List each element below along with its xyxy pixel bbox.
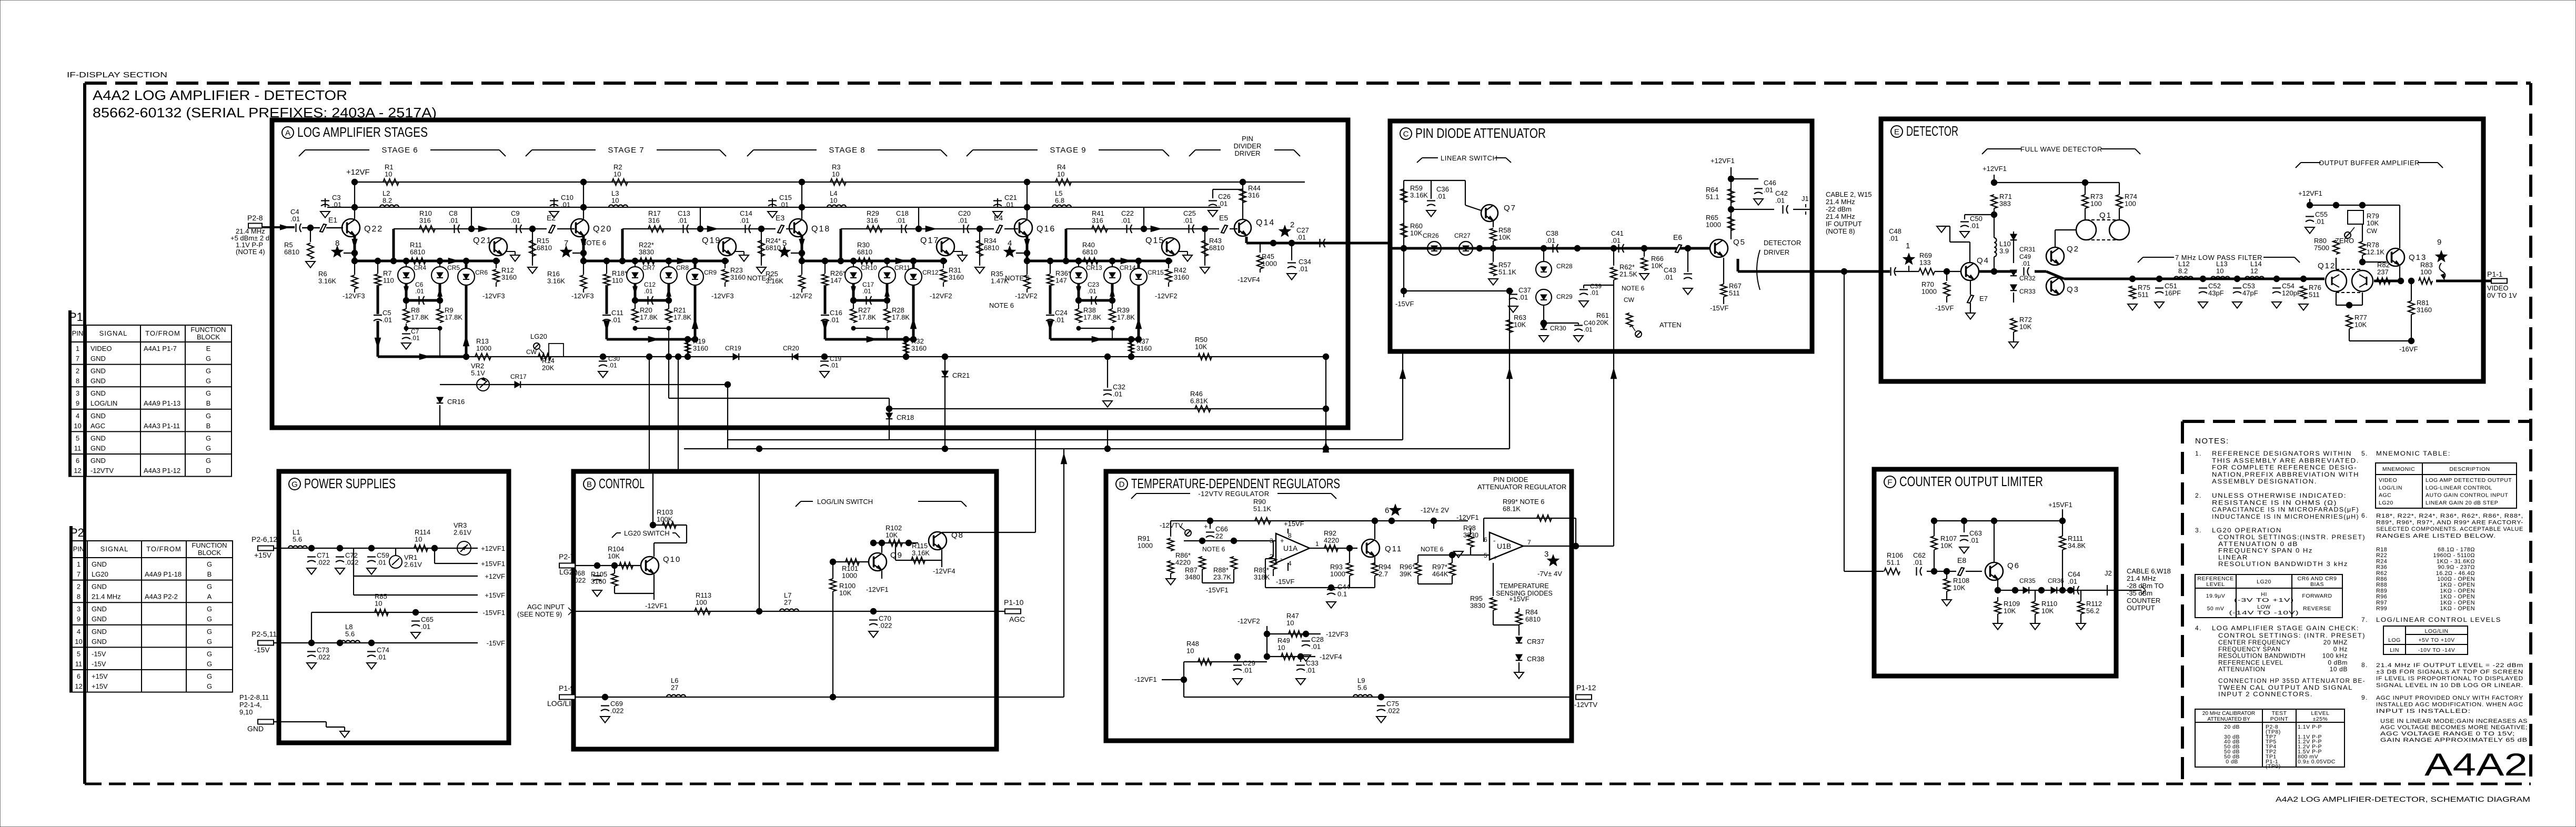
svg-text:J2: J2 [2105, 569, 2112, 577]
svg-text:3160: 3160 [693, 345, 708, 352]
svg-text:.01: .01 [1306, 667, 1315, 674]
svg-text:LG20: LG20 [2257, 579, 2271, 585]
svg-text:FUNCTION: FUNCTION [190, 326, 226, 334]
svg-text:CR16: CR16 [447, 398, 465, 406]
svg-text:.01: .01 [449, 217, 458, 225]
svg-text:CR20: CR20 [783, 345, 799, 352]
svg-text:J1: J1 [1802, 195, 1809, 203]
svg-text:P2-8: P2-8 [247, 214, 263, 222]
svg-text:GND: GND [90, 377, 106, 385]
svg-text:4: 4 [76, 412, 79, 420]
svg-text:A: A [207, 593, 212, 601]
svg-text:IF LEVEL IS PROPORTIONAL TO DI: IF LEVEL IS PROPORTIONAL TO DISPLAYED [2376, 675, 2523, 682]
svg-text:3: 3 [77, 605, 80, 613]
svg-text:10K: 10K [1195, 343, 1207, 351]
svg-text:AGC: AGC [2379, 492, 2391, 499]
svg-text:8: 8 [76, 377, 79, 385]
svg-text:NOTE 6: NOTE 6 [989, 301, 1014, 309]
svg-text:G: G [291, 480, 298, 489]
svg-text:(TP9): (TP9) [2266, 763, 2281, 770]
svg-text:.01: .01 [1296, 234, 1306, 241]
svg-text:Q6: Q6 [2007, 561, 2020, 570]
svg-text:8: 8 [77, 593, 80, 601]
svg-text:17.8K: 17.8K [892, 314, 910, 321]
svg-text:CR36: CR36 [2048, 577, 2064, 584]
svg-text:383: 383 [1999, 200, 2011, 208]
svg-text:R18: R18 [2376, 547, 2387, 553]
svg-text:6810: 6810 [1209, 244, 1224, 252]
svg-text:47pF: 47pF [2242, 289, 2258, 297]
svg-text:-15VF: -15VF [487, 639, 505, 647]
svg-text:LOG/LIN SWITCH: LOG/LIN SWITCH [817, 498, 873, 506]
svg-text:-22 dBm: -22 dBm [1826, 205, 1851, 213]
svg-text:+5V TO +10V: +5V TO +10V [2418, 637, 2454, 643]
svg-text:P1-10: P1-10 [1004, 598, 1024, 607]
svg-text:6810: 6810 [1082, 248, 1098, 256]
svg-text:.01: .01 [1183, 217, 1193, 225]
svg-text:MNEMONIC: MNEMONIC [2382, 466, 2415, 472]
svg-text:10: 10 [830, 197, 837, 205]
svg-text:R96: R96 [2376, 594, 2387, 600]
svg-text:1KΩ - OPEN: 1KΩ - OPEN [2440, 582, 2475, 588]
svg-text:CR9: CR9 [704, 269, 717, 276]
svg-text:NOTE 6: NOTE 6 [1005, 274, 1030, 282]
svg-text:.01: .01 [958, 217, 968, 225]
svg-text:4: 4 [77, 628, 80, 636]
svg-text:P1-12: P1-12 [1576, 683, 1596, 692]
svg-text:LG20: LG20 [92, 570, 108, 578]
svg-text:.01: .01 [1311, 643, 1321, 651]
svg-text:AGC: AGC [1009, 615, 1025, 623]
svg-text:.01: .01 [561, 201, 570, 209]
svg-text:.01: .01 [779, 201, 789, 209]
svg-text:5.6: 5.6 [345, 630, 355, 638]
svg-text:5.6: 5.6 [293, 536, 302, 543]
svg-text:-15VF: -15VF [1935, 304, 1954, 312]
svg-text:-: - [1493, 537, 1495, 544]
svg-text:10: 10 [613, 170, 621, 178]
svg-text:TEMPERATURE-DEPENDENT REGULATO: TEMPERATURE-DEPENDENT REGULATORS [1131, 476, 1340, 491]
svg-text:110: 110 [383, 277, 394, 285]
svg-text:G: G [207, 660, 212, 668]
svg-text:10K: 10K [1410, 229, 1422, 237]
svg-text:20 MHz CALIBRATOR: 20 MHz CALIBRATOR [2202, 711, 2255, 717]
svg-text:G: G [206, 355, 211, 362]
svg-text:PIN: PIN [1242, 135, 1253, 143]
svg-text:.01: .01 [2021, 260, 2030, 267]
svg-text:Q7: Q7 [1504, 204, 1516, 213]
svg-text:-15VF1: -15VF1 [482, 609, 505, 617]
svg-text:LOG-LINEAR CONTROL: LOG-LINEAR CONTROL [2426, 485, 2492, 491]
svg-text:5: 5 [77, 650, 80, 658]
svg-text:GND: GND [90, 434, 106, 442]
svg-text:3160: 3160 [1174, 274, 1189, 281]
svg-text:OUTPUT BUFFER AMPLIFIER: OUTPUT BUFFER AMPLIFIER [2319, 159, 2420, 167]
svg-text:.01: .01 [1584, 326, 1593, 334]
svg-text:PIN: PIN [72, 329, 84, 337]
svg-text:316: 316 [419, 217, 431, 225]
svg-text:120pF: 120pF [2282, 289, 2301, 297]
svg-text:A4A2: A4A2 [2424, 747, 2528, 782]
svg-text:R97: R97 [2376, 600, 2387, 606]
svg-text:F: F [1887, 478, 1892, 487]
svg-text:.022: .022 [317, 559, 330, 567]
svg-text:(SEE NOTE 9): (SEE NOTE 9) [517, 610, 562, 618]
svg-text:3: 3 [1544, 550, 1548, 559]
svg-text:INPUT IS INSTALLED:: INPUT IS INSTALLED: [2376, 708, 2471, 714]
svg-text:GND: GND [247, 724, 264, 733]
svg-text:3830: 3830 [1470, 602, 1485, 610]
svg-text:AUTO GAIN CONTROL INPUT: AUTO GAIN CONTROL INPUT [2426, 492, 2508, 499]
svg-text:3.16K: 3.16K [1410, 191, 1428, 199]
svg-text:NOTE 6: NOTE 6 [747, 274, 772, 282]
svg-text:-12VF2: -12VF2 [1015, 292, 1038, 300]
svg-text:.01: .01 [1913, 559, 1923, 567]
svg-text:6: 6 [76, 457, 79, 465]
svg-text:CONTROL SETTINGS: (INTR. PRESE: CONTROL SETTINGS: (INTR. PRESET) [2218, 632, 2366, 639]
svg-text:.01: .01 [830, 362, 839, 369]
svg-text:B: B [587, 480, 592, 489]
svg-text:316: 316 [867, 217, 878, 225]
svg-text:6.8: 6.8 [1055, 197, 1064, 205]
svg-text:10K: 10K [2019, 323, 2031, 331]
svg-text:12: 12 [74, 467, 81, 475]
svg-text:1000: 1000 [1706, 221, 1721, 229]
svg-text:-35 dBm: -35 dBm [2127, 589, 2152, 597]
svg-text:NOTES:: NOTES: [2195, 437, 2229, 446]
svg-text:CR32: CR32 [2019, 275, 2036, 282]
svg-text:-12VF3: -12VF3 [343, 292, 365, 300]
svg-text:COUNTER: COUNTER [2127, 597, 2160, 604]
svg-text:10K: 10K [2354, 321, 2367, 329]
svg-text:316: 316 [648, 217, 660, 225]
svg-text:.01: .01 [290, 215, 300, 223]
svg-text:U1B: U1B [1497, 542, 1511, 550]
svg-text:17.8K: 17.8K [673, 314, 691, 321]
svg-text:U1A: U1A [1283, 544, 1298, 552]
svg-text:LINEAR SWITCH: LINEAR SWITCH [1441, 154, 1497, 162]
svg-text:LG20: LG20 [530, 332, 547, 340]
svg-text:STAGE 9: STAGE 9 [1050, 146, 1086, 155]
svg-text:-15VF1: -15VF1 [1206, 586, 1229, 594]
svg-text:.01: .01 [862, 288, 871, 295]
svg-text:CR37: CR37 [1527, 638, 1544, 646]
svg-text:COUNTER OUTPUT LIMITER: COUNTER OUTPUT LIMITER [1899, 473, 2043, 489]
svg-text:1000: 1000 [1138, 542, 1153, 550]
svg-text:7: 7 [564, 239, 568, 248]
svg-text:SIGNAL LEVEL IN 10 DB LOG OR L: SIGNAL LEVEL IN 10 DB LOG OR LINEAR. [2376, 682, 2523, 689]
svg-text:90.9Ω - 237Ω: 90.9Ω - 237Ω [2438, 564, 2475, 571]
svg-text:R22: R22 [2376, 552, 2387, 559]
svg-text:1000: 1000 [1921, 288, 1937, 296]
svg-text:LINEAR GAIN 20 dB STEP: LINEAR GAIN 20 dB STEP [2426, 500, 2498, 506]
svg-text:7.: 7. [2361, 616, 2368, 623]
svg-text:POWER SUPPLIES: POWER SUPPLIES [304, 476, 396, 491]
svg-text:11: 11 [75, 660, 83, 668]
svg-text:.01: .01 [1299, 265, 1308, 273]
svg-text:+12VF: +12VF [485, 572, 505, 580]
svg-text:AGC VOLTAGE BECOMES MORE NEGAT: AGC VOLTAGE BECOMES MORE NEGATIVE; [2380, 724, 2528, 731]
svg-text:B: B [206, 399, 211, 407]
svg-text:Q22: Q22 [364, 225, 383, 234]
svg-text:20 dB: 20 dB [2224, 724, 2240, 730]
svg-text:6.81K: 6.81K [1190, 397, 1208, 405]
svg-text:+12VF: +12VF [346, 168, 370, 177]
svg-text:GND: GND [90, 389, 106, 397]
svg-text:100K: 100K [657, 516, 673, 523]
svg-text:A: A [285, 129, 290, 138]
svg-text:FUNCTION: FUNCTION [192, 541, 227, 549]
svg-text:.01: .01 [377, 653, 386, 661]
svg-text:STAGE 8: STAGE 8 [829, 146, 865, 155]
svg-text:CR33: CR33 [2019, 288, 2036, 295]
svg-text:NATION,PREFIX ABBREVIATION WIT: NATION,PREFIX ABBREVIATION WITH [2212, 471, 2359, 478]
svg-text:R88: R88 [2376, 582, 2387, 588]
svg-text:6810: 6810 [410, 248, 425, 256]
svg-text:P2-5,11: P2-5,11 [251, 630, 277, 638]
svg-text:.022: .022 [1386, 707, 1400, 715]
svg-text:20K: 20K [542, 364, 554, 372]
svg-text:51.1: 51.1 [1706, 193, 1719, 201]
svg-text:-15VF: -15VF [1395, 300, 1414, 308]
svg-text:GND: GND [90, 444, 106, 452]
svg-text:+15VF1: +15VF1 [2048, 501, 2072, 509]
svg-text:17.8K: 17.8K [640, 314, 658, 321]
svg-text:3160: 3160 [1136, 345, 1152, 352]
svg-text:50 mV: 50 mV [2207, 606, 2225, 612]
svg-text:.01: .01 [415, 288, 424, 295]
svg-text:-12VF3: -12VF3 [1326, 630, 1349, 638]
svg-text:E7: E7 [1979, 295, 1988, 302]
svg-text:.01: .01 [332, 201, 341, 209]
svg-text:.01: .01 [2315, 218, 2325, 226]
svg-text:NOTE 6: NOTE 6 [1622, 285, 1645, 292]
svg-text:PIN: PIN [73, 545, 85, 553]
svg-text:-15V: -15V [92, 660, 106, 668]
svg-text:+15V: +15V [92, 682, 108, 690]
svg-text:SIGNAL: SIGNAL [100, 545, 129, 553]
svg-text:CR15: CR15 [1148, 269, 1164, 276]
svg-text:1000: 1000 [1262, 260, 1277, 268]
svg-text:3830: 3830 [639, 248, 654, 256]
svg-text:68.1K: 68.1K [1503, 505, 1521, 513]
svg-text:GND: GND [92, 583, 107, 591]
svg-text:.01: .01 [1970, 222, 1979, 230]
svg-text:P1-2-8,11: P1-2-8,11 [239, 693, 269, 701]
svg-text:1KΩ - 31.6KΩ: 1KΩ - 31.6KΩ [2437, 558, 2475, 564]
svg-text:G: G [207, 650, 212, 658]
svg-text:237: 237 [2377, 268, 2389, 276]
svg-text:G: G [207, 682, 212, 690]
svg-text:CR27: CR27 [1454, 232, 1471, 239]
svg-text:19.9μV: 19.9μV [2206, 593, 2226, 599]
svg-text:1KΩ - OPEN: 1KΩ - OPEN [2440, 606, 2475, 612]
svg-text:Q12: Q12 [2318, 261, 2336, 270]
svg-text:17.8K: 17.8K [1083, 314, 1101, 321]
svg-text:AGC INPUT PROVIDED ONLY WITH F: AGC INPUT PROVIDED ONLY WITH FACTORY [2376, 695, 2523, 701]
svg-text:Q3: Q3 [2067, 285, 2079, 294]
svg-text:8.2: 8.2 [383, 197, 392, 205]
svg-text:Q2: Q2 [2067, 245, 2079, 254]
svg-text:.01: .01 [1121, 217, 1131, 225]
svg-text:8.2: 8.2 [2178, 267, 2188, 275]
svg-text:DETECTOR: DETECTOR [1906, 123, 1958, 139]
svg-text:CR5: CR5 [447, 264, 460, 271]
svg-text:.01: .01 [2068, 578, 2077, 586]
svg-text:IF-DISPLAY SECTION: IF-DISPLAY SECTION [67, 70, 167, 79]
svg-text:.022: .022 [317, 653, 330, 661]
svg-text:7: 7 [1527, 539, 1531, 546]
svg-text:6.: 6. [2361, 512, 2368, 519]
svg-text:CR21: CR21 [952, 371, 970, 379]
svg-text:.022: .022 [572, 577, 586, 584]
svg-text:CABLE 2, W15: CABLE 2, W15 [1826, 190, 1871, 198]
svg-text:ATTENUATED BY: ATTENUATED BY [2207, 717, 2250, 722]
svg-text:51.1K: 51.1K [1498, 268, 1516, 276]
svg-text:68.1Ω - 178Ω: 68.1Ω - 178Ω [2438, 547, 2475, 553]
svg-text:GND: GND [92, 605, 107, 613]
svg-text:A4A3 P1-11: A4A3 P1-11 [144, 422, 180, 430]
svg-text:SIGNAL: SIGNAL [99, 329, 128, 337]
svg-text:D: D [1119, 480, 1125, 489]
svg-text:511: 511 [2138, 291, 2149, 299]
svg-text:7: 7 [77, 570, 80, 578]
svg-text:DIVIDER: DIVIDER [1234, 142, 1262, 150]
svg-text:BLOCK: BLOCK [197, 333, 220, 341]
svg-text:.01: .01 [1113, 390, 1122, 398]
svg-text:12: 12 [2250, 267, 2258, 275]
svg-text:5.: 5. [2361, 450, 2368, 457]
svg-text:.01: .01 [1218, 200, 1227, 208]
svg-text:GND: GND [90, 367, 106, 375]
svg-text:A4A2 LOG AMPLIFIER-DETECTOR, S: A4A2 LOG AMPLIFIER-DETECTOR, SCHEMATIC D… [2276, 795, 2530, 803]
svg-text:1.1V P-P: 1.1V P-P [2298, 724, 2322, 730]
svg-text:-12VF3: -12VF3 [482, 292, 505, 300]
svg-text:147: 147 [830, 277, 842, 285]
svg-text:7500: 7500 [2314, 244, 2329, 252]
svg-text:RESISTANCE IS IN OHMS (Ω): RESISTANCE IS IN OHMS (Ω) [2212, 499, 2337, 506]
svg-text:+15VF: +15VF [1509, 595, 1529, 603]
svg-text:17.8K: 17.8K [1117, 314, 1135, 321]
svg-text:INDUCTANCE IS IN MICROHENRIES(: INDUCTANCE IS IN MICROHENRIES(μH) [2212, 513, 2359, 520]
svg-text:VIDEO: VIDEO [2379, 477, 2397, 483]
svg-text:6810: 6810 [1525, 616, 1541, 623]
svg-text:G: G [206, 444, 211, 452]
svg-text:-15VF: -15VF [1710, 304, 1728, 312]
svg-text:R18*, R22*, R24*, R36*, R62*,: R18*, R22*, R24*, R36*, R62*, R86*, R88*… [2376, 513, 2523, 519]
svg-text:GND: GND [90, 457, 106, 465]
svg-text:A4A3 P1-12: A4A3 P1-12 [144, 467, 180, 475]
svg-text:20K: 20K [1596, 319, 1608, 327]
svg-text:8: 8 [335, 239, 339, 248]
svg-text:6810: 6810 [284, 248, 299, 256]
svg-text:5: 5 [76, 434, 79, 442]
svg-text:G: G [207, 583, 212, 591]
svg-text:G: G [206, 412, 211, 420]
svg-text:6810: 6810 [537, 244, 552, 252]
svg-text:4: 4 [1008, 239, 1012, 248]
svg-text:43pF: 43pF [2208, 289, 2224, 297]
svg-text:27: 27 [671, 684, 678, 692]
svg-text:E3: E3 [776, 214, 784, 222]
svg-text:.01: .01 [1764, 186, 1773, 194]
svg-text:A4A3 P2-2: A4A3 P2-2 [145, 593, 178, 601]
svg-text:0.9± 0.05VDC: 0.9± 0.05VDC [2298, 759, 2336, 765]
svg-text:10K: 10K [1651, 262, 1663, 270]
svg-text:CR18: CR18 [897, 413, 914, 421]
svg-text:1.: 1. [2195, 450, 2202, 457]
svg-text:USE IN LINEAR MODE;GAIN INCREA: USE IN LINEAR MODE;GAIN INCREASES AS [2380, 718, 2528, 724]
svg-text:G: G [206, 457, 211, 465]
svg-text:-12VF1: -12VF1 [645, 602, 668, 610]
svg-text:CR28: CR28 [1556, 263, 1573, 270]
svg-text:INPUT 2 CONNECTORS.: INPUT 2 CONNECTORS. [2218, 691, 2313, 698]
svg-text:5.1V: 5.1V [471, 369, 485, 377]
svg-text:LOG/LIN: LOG/LIN [547, 699, 576, 708]
svg-text:A4A9 P1-18: A4A9 P1-18 [145, 570, 182, 578]
svg-text:E4: E4 [994, 214, 1003, 222]
svg-text:2.61V: 2.61V [454, 529, 471, 537]
svg-text:10: 10 [75, 638, 82, 646]
svg-text:G: G [207, 638, 212, 646]
svg-text:(NOTE 4): (NOTE 4) [236, 248, 265, 256]
svg-text:LOG AMPLIFIER STAGES: LOG AMPLIFIER STAGES [297, 124, 428, 140]
svg-text:10: 10 [1277, 644, 1285, 652]
svg-text:G: G [206, 389, 211, 397]
svg-text:CR10: CR10 [861, 264, 877, 271]
svg-text:-12V± 2V: -12V± 2V [1421, 506, 1449, 514]
svg-text:B: B [207, 570, 212, 578]
svg-text:1960Ω - 5110Ω: 1960Ω - 5110Ω [2433, 552, 2475, 559]
svg-text:TO/FROM: TO/FROM [146, 545, 182, 553]
svg-text:ATTENUATOR REGULATOR: ATTENUATOR REGULATOR [1477, 483, 1566, 491]
svg-text:2: 2 [1290, 220, 1294, 229]
svg-text:Q19: Q19 [702, 236, 721, 245]
svg-text:10K: 10K [839, 589, 851, 597]
svg-text:-10V TO -14V: -10V TO -14V [2418, 647, 2455, 653]
svg-text:-12VF2: -12VF2 [1237, 617, 1260, 625]
svg-text:11: 11 [74, 444, 82, 452]
svg-text:10K: 10K [2041, 607, 2054, 615]
svg-text:.01: .01 [896, 217, 905, 225]
svg-text:±25%: ±25% [2313, 716, 2328, 722]
svg-text:CW: CW [1624, 296, 1635, 304]
svg-text:LOG/LINEAR CONTROL LEVELS: LOG/LINEAR CONTROL LEVELS [2376, 616, 2501, 623]
svg-text:A4A1 P1-7: A4A1 P1-7 [144, 345, 177, 352]
svg-text:Q1: Q1 [2099, 211, 2112, 220]
svg-text:10K: 10K [1953, 584, 1965, 592]
svg-text:ATTENUATION: ATTENUATION [2218, 665, 2266, 673]
svg-text:10: 10 [74, 422, 81, 430]
svg-text:R89: R89 [2376, 588, 2387, 594]
svg-text:RESOLUTION BANDWIDTH 3 kHz: RESOLUTION BANDWIDTH 3 kHz [2218, 560, 2348, 568]
svg-text:51.1: 51.1 [1887, 559, 1900, 567]
svg-text:6810: 6810 [984, 244, 999, 252]
svg-text:-28 dBm TO: -28 dBm TO [2127, 582, 2164, 590]
svg-text:LOG: LOG [2388, 637, 2401, 643]
svg-text:.01: .01 [511, 217, 520, 225]
svg-text:-12VF1: -12VF1 [1134, 675, 1157, 683]
svg-text:10K: 10K [608, 552, 620, 560]
svg-text:-12VF2: -12VF2 [790, 292, 812, 300]
svg-text:9,10: 9,10 [239, 708, 253, 716]
svg-text:-15V: -15V [254, 646, 270, 654]
svg-text:17.8K: 17.8K [445, 314, 462, 321]
svg-text:Q11: Q11 [1385, 544, 1402, 553]
svg-text:AGC VOLTAGE RANGE 0 TO 15V;: AGC VOLTAGE RANGE 0 TO 15V; [2380, 731, 2515, 737]
svg-text:-12VTV: -12VTV [1160, 521, 1183, 529]
svg-text:G: G [207, 615, 212, 623]
